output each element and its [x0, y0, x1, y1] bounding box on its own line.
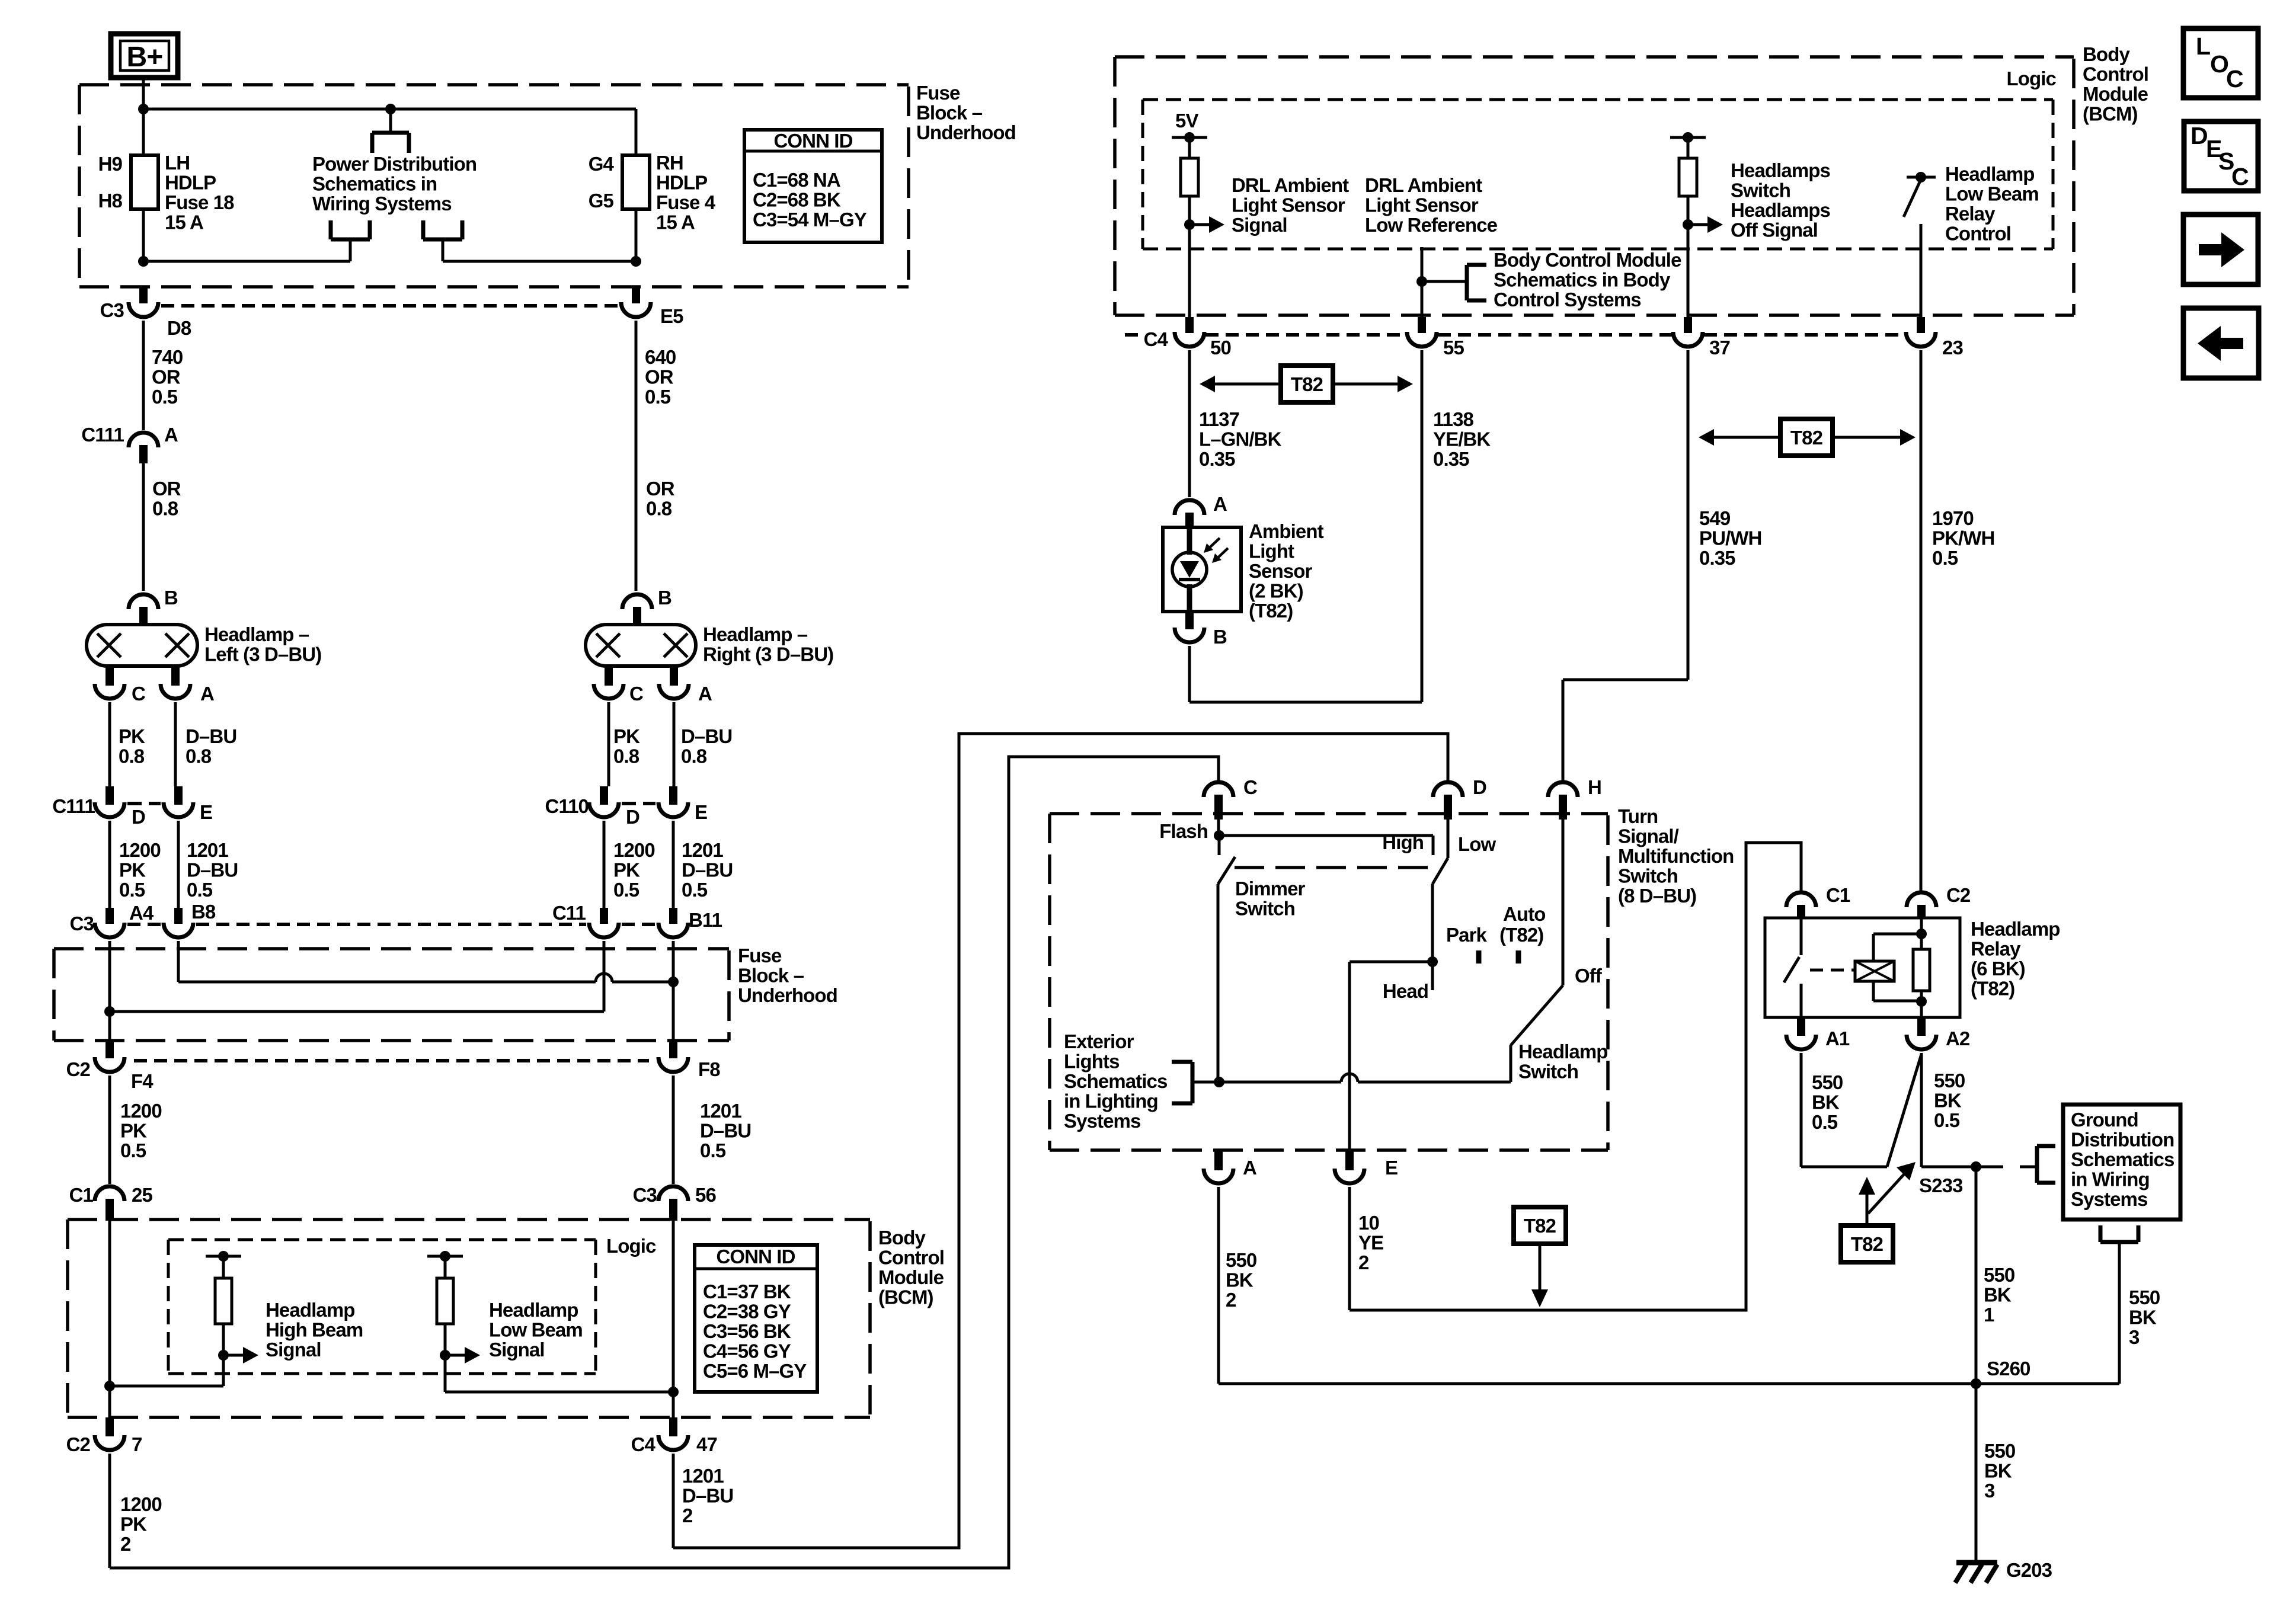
svg-text:Right (3 D–BU): Right (3 D–BU) [703, 644, 833, 665]
svg-text:Logic: Logic [2007, 68, 2057, 89]
reference box arrow left [2183, 308, 2259, 378]
label C3 (56) [633, 1184, 657, 1206]
svg-text:A: A [164, 424, 178, 446]
signal arrow DRL Ambient Light Sensor Signal [1184, 216, 1224, 233]
connector row C3 lower dashed line [127, 923, 655, 926]
label D8 [167, 317, 191, 339]
svg-text:Schematics: Schematics [1064, 1070, 1167, 1092]
label Power Distribution Schematics in Wiring Systems [312, 153, 477, 215]
wire pin 50 inside BCM [1188, 225, 1191, 317]
svg-text:Body: Body [878, 1227, 926, 1249]
wire S260 to ground G203 [1975, 1384, 1978, 1561]
svg-text:D–BU: D–BU [187, 859, 238, 881]
connector C111 pin A [129, 433, 158, 591]
label C (right headlamp) [629, 683, 643, 705]
svg-text:(T82): (T82) [1249, 600, 1293, 622]
label Logic (lower) [606, 1235, 656, 1257]
svg-text:Relay: Relay [1971, 938, 2021, 960]
driver Headlamp High Beam Signal [206, 1251, 258, 1386]
svg-text:PK: PK [120, 1513, 147, 1535]
svg-text:Left (3 D–BU): Left (3 D–BU) [204, 644, 321, 665]
svg-text:C5=6 M–GY: C5=6 M–GY [703, 1360, 807, 1382]
connector pin A (sensor) [1175, 500, 1204, 529]
svg-text:Ground: Ground [2071, 1109, 2138, 1131]
svg-text:C111: C111 [52, 795, 95, 817]
wire label OR 0.8 left [152, 478, 181, 520]
svg-text:1201: 1201 [682, 1465, 724, 1487]
label Body Control Module (BCM) upper [2083, 43, 2148, 125]
node Head contact [1431, 962, 1434, 990]
wire 1201 D-BU 2 run to low-high feed [673, 734, 1448, 1548]
logic box upper [1143, 100, 2053, 249]
lamp Headlamp - Right (3 D-BU) [586, 594, 696, 786]
wire A1 to S233 [1801, 1053, 1887, 1167]
svg-text:Light: Light [1249, 540, 1294, 562]
svg-text:Block –: Block – [738, 965, 804, 987]
svg-text:PK: PK [119, 725, 145, 747]
label DRL Ambient Light Sensor Low Reference [1365, 174, 1498, 236]
svg-text:C1=68 NA: C1=68 NA [753, 169, 840, 191]
contact stub Auto [1516, 950, 1521, 964]
component box Fuse Block - Underhood (top) [79, 85, 909, 287]
svg-text:Switch: Switch [1731, 180, 1790, 201]
connector row C4 dashed line [1125, 333, 1905, 337]
svg-text:C2=68 BK: C2=68 BK [753, 189, 841, 211]
svg-text:B11: B11 [689, 909, 722, 931]
svg-text:0.5: 0.5 [1934, 1109, 1960, 1131]
ground distribution staple [2100, 1225, 2138, 1384]
label Auto (T82) [1499, 903, 1546, 946]
svg-text:1200: 1200 [120, 1493, 162, 1515]
svg-text:T82: T82 [1851, 1233, 1884, 1255]
svg-text:3: 3 [1984, 1480, 1995, 1502]
svg-text:3: 3 [2129, 1326, 2140, 1348]
wire label OR 0.8 right [646, 478, 675, 520]
svg-text:Distribution: Distribution [2071, 1129, 2174, 1151]
svg-text:Fuse 4: Fuse 4 [656, 191, 716, 213]
svg-text:L: L [2196, 33, 2210, 60]
wire label PK 0.8 (left) [119, 725, 145, 767]
wire label 550 BK 3 (bottom) [1984, 1440, 2015, 1502]
svg-text:B: B [1213, 626, 1227, 648]
svg-text:C2=38 GY: C2=38 GY [703, 1301, 791, 1323]
svg-text:F8: F8 [698, 1058, 720, 1080]
label C110 (row 2) [545, 795, 589, 817]
svg-text:1201: 1201 [700, 1100, 741, 1122]
label Logic (upper) [2007, 68, 2057, 89]
svg-text:Turn: Turn [1618, 805, 1658, 827]
svg-text:C: C [132, 683, 145, 705]
svg-text:0.5: 0.5 [645, 386, 671, 408]
svg-text:D–BU: D–BU [186, 725, 236, 747]
table CONN ID BCM [695, 1245, 817, 1392]
svg-text:Signal/: Signal/ [1618, 825, 1679, 847]
svg-text:Light Sensor: Light Sensor [1232, 194, 1345, 216]
svg-text:D–BU: D–BU [682, 859, 733, 881]
svg-text:CONN ID: CONN ID [773, 130, 852, 152]
connector C3 pin D8 [129, 287, 158, 430]
exterior lights takeout bracket [1172, 1062, 1219, 1103]
svg-text:2: 2 [120, 1533, 131, 1555]
wire label 10 YE 2 [1358, 1212, 1383, 1273]
label A (right headlamp) [698, 683, 712, 705]
svg-text:0.5: 0.5 [682, 879, 708, 901]
label C4 (47) [631, 1433, 656, 1455]
svg-text:2: 2 [1358, 1251, 1369, 1273]
svg-text:Fuse: Fuse [916, 82, 960, 104]
svg-text:C3=56 BK: C3=56 BK [703, 1320, 791, 1342]
label 7 [132, 1433, 142, 1455]
label Low [1458, 833, 1496, 855]
svg-text:Lights: Lights [1064, 1051, 1120, 1073]
svg-text:HDLP: HDLP [656, 172, 707, 194]
svg-text:Module: Module [2083, 83, 2148, 105]
svg-text:PK: PK [613, 725, 640, 747]
label Exterior Lights Schematics in Lighting Systems [1064, 1030, 1167, 1132]
svg-text:Fuse: Fuse [738, 945, 782, 966]
svg-text:0.8: 0.8 [186, 745, 212, 767]
svg-text:25: 25 [132, 1184, 152, 1206]
label D (C110) [626, 806, 639, 828]
box Ground Distribution Schematics in Wiring Systems [2063, 1105, 2180, 1219]
svg-text:Body Control Module: Body Control Module [1494, 249, 1681, 271]
pin labels G4 G5 [589, 153, 615, 212]
svg-text:Off Signal: Off Signal [1731, 219, 1818, 241]
label 23 [1942, 337, 1963, 359]
svg-text:Wiring Systems: Wiring Systems [312, 193, 452, 215]
label Headlamp Low Beam Relay Control [1945, 163, 2039, 245]
svg-text:F4: F4 [131, 1070, 154, 1092]
svg-text:T82: T82 [1790, 427, 1823, 449]
label Headlamps Switch Headlamps Off Signal [1731, 159, 1830, 241]
connector relay pin C2 [1907, 892, 1936, 919]
connector pin D (mf switch) [1433, 782, 1463, 820]
connector C4 pin 50 [1175, 317, 1204, 497]
svg-text:C110: C110 [545, 795, 589, 817]
svg-text:640: 640 [645, 346, 676, 368]
wire label 1138 YE/BK 0.35 [1433, 408, 1491, 470]
pin labels H9 H8 [98, 153, 123, 212]
svg-text:Schematics in Body: Schematics in Body [1494, 269, 1671, 291]
svg-text:Underhood: Underhood [916, 121, 1016, 143]
label G203 [2006, 1559, 2052, 1581]
svg-text:Light Sensor: Light Sensor [1365, 194, 1479, 216]
wire label D-BU 0.8 (left) [186, 725, 236, 767]
svg-text:740: 740 [152, 346, 183, 368]
svg-text:Head: Head [1383, 980, 1428, 1002]
sensor Ambient Light Sensor (2 BK) (T82) [1163, 527, 1241, 612]
label Headlamp Switch [1518, 1041, 1608, 1083]
svg-text:BK: BK [1226, 1269, 1253, 1291]
svg-text:C3=54 M–GY: C3=54 M–GY [753, 209, 867, 231]
connector C1 pin 25 [95, 1186, 124, 1221]
svg-text:C: C [1243, 776, 1257, 798]
connector C2 pin F4 [95, 1041, 124, 1184]
label Ambient Light Sensor (2 BK) (T82) [1249, 520, 1324, 622]
relay box Headlamp Relay [1765, 918, 1960, 1017]
svg-text:Body: Body [2083, 43, 2130, 65]
takeout staple left [331, 220, 370, 261]
connector pin C (mf switch) [1204, 782, 1233, 820]
label F8 [698, 1058, 720, 1080]
label C111 (row 2) [52, 795, 95, 817]
label Headlamp Relay (6 BK) (T82) [1971, 918, 2060, 1000]
svg-text:C11: C11 [552, 902, 586, 924]
driver Headlamp Low Beam Signal [427, 1251, 480, 1392]
dimmer switch dashed box line [1235, 866, 1428, 869]
wire S233 to S260 [1975, 1167, 1978, 1384]
label A1 (relay) [1825, 1028, 1850, 1049]
connector C4 pin 47 [658, 1417, 688, 1548]
svg-text:Systems: Systems [2071, 1188, 2147, 1210]
node Flash [1214, 820, 1224, 841]
connector C3 pin B8 [164, 908, 193, 982]
svg-text:1970: 1970 [1932, 507, 1974, 529]
wire label 1201 D-BU 0.5 (left) [187, 839, 238, 901]
label B8 [191, 901, 216, 923]
label C111 (pin A) [81, 424, 124, 446]
svg-text:PK/WH: PK/WH [1932, 527, 1995, 549]
connector C3 pin C11 [589, 908, 619, 1012]
svg-text:OR: OR [645, 366, 674, 388]
relay coil [1855, 961, 1894, 981]
wire B+ to fuse block bus [142, 78, 145, 109]
svg-text:0.35: 0.35 [1699, 547, 1735, 569]
wire label 1201 D-BU 0.5 (right) [682, 839, 733, 901]
svg-text:S233: S233 [1919, 1174, 1963, 1196]
svg-text:Control: Control [878, 1247, 944, 1269]
svg-text:A4: A4 [129, 902, 154, 924]
connector relay pin A2 [1907, 1017, 1936, 1049]
label LH HDLP Fuse 18 15A [165, 152, 234, 233]
svg-text:Module: Module [878, 1266, 944, 1288]
svg-text:C2: C2 [1946, 884, 1971, 906]
takeout to ground distribution [1976, 1146, 2055, 1183]
wire label 550 BK 3 (right) [2129, 1286, 2160, 1348]
resistor headlamps off pullup [1670, 132, 1706, 225]
svg-text:1200: 1200 [613, 839, 655, 861]
wire label 1137 L-GN/BK 0.35 [1199, 408, 1282, 470]
svg-text:HDLP: HDLP [165, 172, 216, 194]
label C1 (25) [69, 1184, 94, 1206]
wire label 1200 PK 2 [120, 1493, 162, 1555]
low beam blade from pin D [1427, 820, 1448, 967]
wire low beam to pin 56 net [445, 1391, 673, 1394]
connector relay pin C1 [1786, 892, 1816, 919]
label Fuse Block - Underhood (top box) [916, 82, 1016, 143]
svg-text:Headlamps: Headlamps [1731, 199, 1830, 221]
relay resistor [1913, 949, 1930, 1017]
svg-text:PU/WH: PU/WH [1699, 527, 1762, 549]
wire label 550 BK 0.5 (A2) [1934, 1070, 1965, 1131]
svg-text:0.5: 0.5 [187, 879, 213, 901]
label 25 [132, 1184, 152, 1206]
label Turn Signal Multifunction Switch [1618, 805, 1734, 907]
label A (sensor) [1213, 493, 1227, 515]
svg-text:C: C [2226, 65, 2243, 92]
svg-text:T82: T82 [1291, 373, 1323, 395]
svg-text:(BCM): (BCM) [878, 1286, 933, 1308]
svg-text:0.5: 0.5 [613, 879, 639, 901]
label Body Control Module Schematics in Body Control Systems [1494, 249, 1681, 311]
svg-text:0.8: 0.8 [613, 745, 639, 767]
svg-text:Schematics: Schematics [2071, 1148, 2174, 1170]
svg-text:A2: A2 [1946, 1028, 1970, 1049]
svg-text:47: 47 [696, 1433, 717, 1455]
svg-text:0.5: 0.5 [1932, 547, 1958, 569]
battery feed B+ terminal [111, 34, 178, 78]
svg-text:Signal: Signal [489, 1339, 545, 1361]
svg-text:H8: H8 [98, 190, 123, 212]
wire label 550 BK 2 [1226, 1249, 1256, 1311]
svg-text:LH: LH [165, 152, 190, 174]
svg-text:BK: BK [1984, 1284, 2012, 1306]
svg-text:0.5: 0.5 [1812, 1111, 1838, 1133]
label C3 [100, 299, 124, 321]
lower bus wires in fuse block [138, 256, 641, 267]
connector C111 pins D and E [95, 786, 193, 908]
svg-text:0.5: 0.5 [120, 1140, 146, 1161]
svg-text:549: 549 [1699, 507, 1731, 529]
wire label 549 PU/WH 0.35 [1699, 507, 1762, 569]
reference box DESC [2184, 121, 2258, 191]
wire A2 to S233 with alternate blade [1887, 1053, 1976, 1167]
svg-text:Flash: Flash [1159, 820, 1208, 842]
connector pin H (mf switch) [1548, 782, 1578, 820]
wire pin 37 to H [1563, 680, 1688, 780]
svg-text:A: A [1213, 493, 1227, 515]
svg-text:Logic: Logic [606, 1235, 656, 1257]
label H (mf switch) [1588, 776, 1601, 798]
svg-text:0.5: 0.5 [119, 879, 145, 901]
svg-text:E: E [1385, 1157, 1398, 1179]
svg-text:G5: G5 [589, 190, 614, 212]
relay actuation dashed link [1810, 969, 1854, 972]
svg-text:C1=37 BK: C1=37 BK [703, 1281, 791, 1302]
reference T82 at S233 [1841, 1177, 1893, 1262]
wire high beam to pin 25 net [110, 1385, 223, 1388]
svg-text:56: 56 [695, 1184, 716, 1206]
svg-text:D: D [626, 806, 639, 828]
label C3 (lower) [70, 913, 94, 934]
svg-text:C1: C1 [1826, 884, 1850, 906]
svg-text:0.8: 0.8 [646, 498, 672, 520]
svg-text:0.8: 0.8 [152, 498, 178, 520]
svg-text:(BCM): (BCM) [2083, 103, 2138, 125]
svg-text:OR: OR [152, 366, 181, 388]
wire label PK 0.8 (right) [613, 725, 640, 767]
svg-text:E: E [200, 801, 212, 823]
svg-text:High Beam: High Beam [266, 1319, 363, 1341]
svg-text:0.5: 0.5 [700, 1140, 726, 1161]
label C2 (7) [66, 1433, 91, 1455]
svg-text:C1: C1 [69, 1184, 94, 1206]
wire B8 to B11 with hop [178, 974, 679, 987]
svg-text:Power Distribution: Power Distribution [312, 153, 477, 175]
svg-text:550: 550 [1934, 1070, 1965, 1092]
svg-text:C4=56 GY: C4=56 GY [703, 1340, 791, 1362]
wire label 1200 PK 0.5 (F4) [120, 1100, 162, 1161]
connector relay pin A1 [1786, 1017, 1816, 1049]
svg-text:BK: BK [2129, 1307, 2157, 1329]
svg-text:7: 7 [132, 1433, 142, 1455]
label A2 (relay) [1946, 1028, 1970, 1049]
svg-text:High: High [1382, 831, 1424, 853]
wire label 740 OR 0.5 [152, 346, 183, 408]
svg-text:Sensor: Sensor [1249, 560, 1313, 582]
takeout bracket Body Control Module Schematics [1422, 265, 1486, 300]
contact stub Park [1476, 950, 1482, 964]
label E (mf switch) [1385, 1157, 1398, 1179]
wire label 1200 PK 0.5 (left) [119, 839, 161, 901]
svg-text:D–BU: D–BU [682, 1485, 733, 1507]
svg-text:Ambient: Ambient [1249, 520, 1324, 542]
label Head [1383, 980, 1428, 1002]
svg-text:E5: E5 [660, 305, 683, 327]
svg-text:RH: RH [656, 152, 683, 174]
svg-text:0.8: 0.8 [681, 745, 707, 767]
svg-text:Control Systems: Control Systems [1494, 289, 1641, 311]
svg-text:(2 BK): (2 BK) [1249, 580, 1303, 602]
label High [1382, 831, 1424, 853]
ground G203 [1955, 1563, 1997, 1583]
svg-text:C2: C2 [66, 1058, 91, 1080]
svg-text:D–BU: D–BU [700, 1120, 751, 1142]
svg-text:15 A: 15 A [656, 212, 695, 233]
svg-text:DRL Ambient: DRL Ambient [1365, 174, 1482, 196]
label Dimmer Switch [1235, 878, 1306, 920]
svg-text:550: 550 [1984, 1264, 2014, 1286]
label F4 [131, 1070, 154, 1092]
bus wire inside fuse block [138, 104, 636, 114]
svg-text:15 A: 15 A [165, 212, 203, 233]
component box Body Control Module lower [68, 1219, 870, 1417]
label A (left headlamp) [200, 683, 214, 705]
label 56 [695, 1184, 716, 1206]
svg-text:(T82): (T82) [1971, 978, 2014, 1000]
fuse 18 LH HDLP 15A [131, 109, 158, 261]
component box Fuse Block - Underhood (lower) [54, 949, 729, 1041]
svg-text:C3: C3 [100, 299, 124, 321]
connector C3 pin 56 [658, 1186, 688, 1221]
svg-text:B+: B+ [127, 41, 163, 73]
svg-text:Block –: Block – [916, 102, 983, 124]
svg-text:BK: BK [1812, 1092, 1840, 1113]
logic box lower [168, 1240, 596, 1374]
svg-text:Multifunction: Multifunction [1618, 845, 1734, 867]
svg-text:PK: PK [119, 859, 146, 881]
svg-text:10: 10 [1358, 1212, 1379, 1234]
svg-text:T82: T82 [1524, 1215, 1556, 1237]
connector row C3 dashed line [161, 304, 621, 308]
label D (C111) [132, 806, 145, 828]
svg-text:(6 BK): (6 BK) [1971, 958, 2025, 980]
wire switch common bus with hop [1214, 1074, 1511, 1087]
wire label D-BU 0.8 (right) [681, 725, 732, 767]
svg-text:2: 2 [1226, 1289, 1236, 1311]
wire A4 to C11 [104, 1006, 604, 1017]
svg-text:Off: Off [1575, 965, 1603, 987]
svg-text:2: 2 [682, 1505, 693, 1526]
svg-text:B: B [658, 587, 671, 609]
svg-text:1: 1 [1984, 1304, 1994, 1326]
connector C4 pin 23 [1906, 317, 1936, 891]
headlamp switch blade [1511, 985, 1563, 1082]
label S260 [1987, 1358, 2030, 1379]
wire label 550 BK 0.5 (A1) [1812, 1071, 1843, 1133]
lamp Headlamp - Left (3 D-BU) [87, 594, 197, 786]
label D (mf switch) [1473, 776, 1486, 798]
